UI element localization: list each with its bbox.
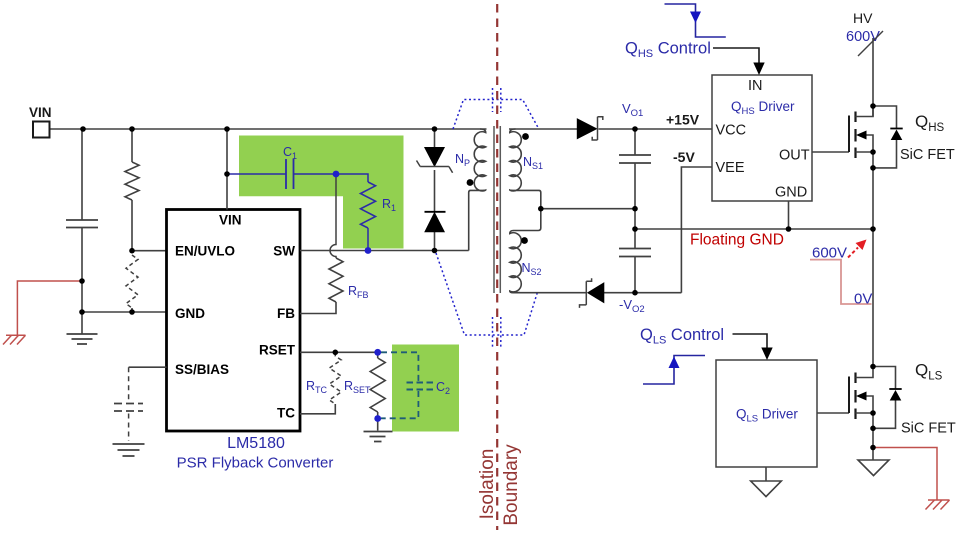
svg-text:0V: 0V [854, 291, 872, 308]
wire: divider branch [131, 129, 133, 312]
resistor lower (dashed, optional) [126, 255, 138, 308]
red wire to chassis ground (bottom right) [873, 448, 937, 501]
wire: phase node column [872, 229, 874, 367]
phase dot NS2 [521, 237, 528, 244]
svg-text:Isolation: Isolation [477, 449, 498, 520]
svg-text:LM5180: LM5180 [227, 435, 285, 452]
wire: -5V to VEE [681, 167, 712, 293]
wire: SW rail [300, 250, 469, 252]
svg-text:OUT: OUT [779, 148, 810, 164]
svg-text:SS/BIAS: SS/BIAS [175, 362, 229, 377]
QLS driver U3 [716, 360, 817, 467]
slash on HV line [858, 31, 883, 56]
diode D1 (blocking) [425, 211, 446, 213]
svg-text:NS1: NS1 [523, 155, 543, 171]
QLS driver ground (triangle) [765, 467, 767, 481]
svg-text:RFB: RFB [348, 284, 369, 300]
capacitor COUT2 [619, 249, 651, 257]
TVS diode Z1 [425, 148, 444, 167]
wire: HV line [872, 38, 874, 117]
QLS source ground (triangle) [858, 460, 889, 476]
VIN terminal [33, 122, 50, 138]
capacitor CSS (dashed) [128, 367, 130, 441]
wire: OUT to gate QHS [812, 151, 849, 153]
svg-text:SiC FET: SiC FET [900, 147, 955, 163]
rectifier diode D3 (schottky) [588, 283, 604, 303]
wire: NS1 output rail [509, 128, 712, 130]
svg-text:TC: TC [277, 406, 295, 421]
QLS control wire with arrow [733, 334, 768, 348]
body diode QLS [873, 367, 896, 429]
wire: SS/BIAS pin [129, 366, 167, 368]
svg-text:VEE: VEE [716, 160, 745, 176]
rectifier diode D2 (schottky) [577, 119, 596, 139]
svg-text:+15V: +15V [666, 112, 700, 128]
capacitor COUT1 [619, 155, 651, 163]
transformer secondary NS1 winding [510, 129, 541, 209]
wire: clamp branch [434, 129, 436, 251]
red wire to chassis ground [17, 281, 82, 335]
svg-text:VIN: VIN [29, 105, 52, 120]
svg-text:VIN: VIN [219, 213, 242, 228]
resistor RSET [377, 352, 379, 358]
svg-text:-5V: -5V [673, 149, 695, 165]
snubber highlight (green) [239, 136, 404, 249]
transistor QHS (SiC FET) [849, 106, 873, 168]
chassis ground (red, left) [3, 335, 26, 344]
wire: GND rail [82, 311, 167, 313]
capacitor C1 [227, 173, 336, 175]
svg-text:RSET: RSET [259, 343, 296, 358]
resistor R upper (divider) [125, 162, 139, 200]
ground (signal) below RSET [364, 432, 393, 442]
svg-text:600V: 600V [812, 245, 847, 262]
svg-text:VCC: VCC [716, 123, 747, 139]
QHS control wire with arrow [713, 48, 759, 63]
svg-text:SW: SW [273, 244, 295, 259]
resistor RFB [329, 258, 343, 302]
svg-text:Boundary: Boundary [501, 444, 522, 526]
transistor QLS (SiC FET) [849, 367, 873, 429]
QHS control waveform (falling edge, blue) [665, 4, 726, 37]
isolation boundary (red dashed) [496, 4, 498, 530]
svg-text:QHS: QHS [915, 112, 945, 134]
svg-text:SiC FET: SiC FET [901, 421, 956, 437]
wire: floating gnd rail [635, 228, 873, 230]
capacitor C2 (dashed) [381, 352, 418, 418]
wire: output cap stack [634, 129, 636, 293]
svg-text:-VO2: -VO2 [619, 297, 645, 315]
svg-text:FB: FB [277, 306, 295, 321]
ground (signal) below CIN [67, 334, 98, 344]
C2 highlight (green) [392, 345, 459, 432]
transformer primary NP winding [469, 129, 486, 251]
chassis ground (red, bottom right) [926, 500, 950, 510]
wire: QLS source down [872, 428, 874, 460]
phase dot NS1 [522, 133, 529, 140]
capacitor CIN [66, 220, 98, 228]
svg-text:IN: IN [748, 78, 763, 94]
svg-text:PSR Flyback Converter: PSR Flyback Converter [177, 455, 334, 472]
wire: EN/UVLO pin [132, 250, 167, 252]
QLS control waveform (rising edge, blue) [643, 356, 705, 385]
blue junction dots [333, 171, 382, 422]
wire: VIN top rail [49, 128, 487, 130]
svg-text:QLS: QLS [915, 361, 943, 383]
transformer secondary NS2 winding [510, 209, 541, 293]
transformer core [494, 126, 500, 293]
resistor R1 [336, 174, 368, 182]
wire: input cap branch [81, 129, 83, 334]
svg-text:VO1: VO1 [622, 101, 643, 119]
svg-text:RTC: RTC [306, 379, 328, 395]
wire: NS2 bottom rail [513, 292, 681, 294]
svg-text:GND: GND [175, 306, 205, 321]
wire: TC pin [300, 404, 335, 414]
svg-text:GND: GND [775, 184, 807, 200]
svg-text:QHS Control: QHS Control [625, 40, 711, 61]
wire: RSET pin [300, 351, 378, 353]
ground (signal) below CSS [113, 444, 145, 456]
svg-text:QLS Control: QLS Control [640, 326, 724, 347]
wire: VIN pin [226, 129, 228, 210]
svg-text:NS2: NS2 [522, 261, 542, 277]
safety boundary (blue dotted) around transformer [453, 100, 538, 130]
svg-text:EN/UVLO: EN/UVLO [175, 244, 235, 259]
svg-text:Floating GND: Floating GND [690, 232, 784, 249]
svg-text:NP: NP [455, 152, 470, 168]
red rising arrow [848, 248, 858, 258]
phase dot NP [467, 179, 474, 186]
svg-text:600V: 600V [846, 29, 880, 45]
wire: QHS source to floating rail [872, 168, 874, 229]
wire: QHS driver GND stub [788, 201, 790, 229]
svg-text:HV: HV [853, 10, 873, 26]
op IC LM5180 [167, 210, 301, 432]
body diode QHS [873, 106, 897, 168]
QHS driver U2 [712, 75, 812, 201]
wire: OUT to gate QLS [817, 412, 849, 414]
wire: C1 junction down to RFB with hop over SW [330, 174, 336, 258]
resistor RTC (dashed) [329, 352, 341, 404]
red step waveform 600V/0V [810, 260, 872, 304]
wire: mid rail [541, 208, 635, 210]
svg-text:RSET: RSET [344, 379, 371, 395]
